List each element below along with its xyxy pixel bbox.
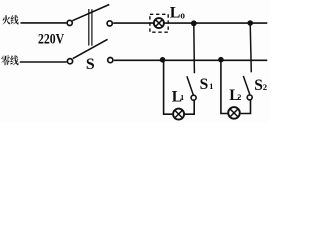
wire branch2 left (neutral down to lamp L2) — [221, 60, 228, 114]
switch S1 bottom terminal — [191, 95, 196, 100]
label 火线 (live wire) — [2, 15, 18, 24]
wire branch1 left (neutral down to lamp L1) — [164, 61, 173, 114]
svg-text:S: S — [86, 56, 95, 73]
knife switch S neutral-side blade — [73, 39, 108, 58]
wire live-to-S2 vertical (crosses neutral, no join) — [250, 23, 251, 72]
junction node live feed S2 — [247, 20, 253, 26]
junction node live feed S1 — [191, 20, 197, 26]
wire live-to-S1 vertical (crosses neutral, no join) — [193, 23, 196, 73]
wire neutral from switch to right end — [114, 59, 267, 61]
wire live from label to knife switch — [21, 22, 67, 24]
knife switch S neutral-side right terminal — [108, 58, 113, 63]
svg-text:L: L — [170, 5, 181, 22]
svg-text:0: 0 — [180, 11, 185, 20]
svg-text:2: 2 — [237, 93, 241, 102]
svg-text:220V: 220V — [38, 31, 64, 47]
switch S2 blade — [243, 76, 249, 94]
wire live from L0 to right end — [164, 22, 267, 24]
svg-text:S: S — [200, 76, 209, 93]
svg-text:S: S — [254, 77, 263, 94]
svg-text:1: 1 — [209, 82, 213, 91]
svg-text:1: 1 — [180, 93, 184, 102]
wire branch1 right (lamp L1 up to S1) — [185, 100, 194, 114]
switch S2 bottom terminal — [247, 95, 252, 100]
lamp L0 — [154, 18, 164, 28]
lamp L2 — [228, 107, 240, 119]
switch S1 blade — [187, 76, 193, 94]
dashed box around lamp L0 — [150, 14, 168, 32]
svg-text:2: 2 — [263, 82, 268, 92]
wire neutral from label to knife switch — [20, 61, 67, 63]
lamp L1 — [173, 109, 184, 120]
knife switch S live-side right terminal — [107, 21, 112, 26]
junction node neutral feed L2 — [218, 57, 224, 63]
knife switch S live-side blade — [72, 5, 109, 21]
knife switch S live-side left terminal — [67, 20, 72, 25]
junction node neutral feed L1 — [160, 57, 166, 63]
wire live from switch to lamp L0 — [113, 22, 154, 24]
label 零线 (neutral wire) — [1, 55, 18, 65]
knife switch S neutral-side left terminal — [67, 59, 72, 64]
knife switch S linkage bar — [89, 9, 92, 46]
wire branch2 right (lamp L2 up to S2) — [241, 100, 251, 113]
